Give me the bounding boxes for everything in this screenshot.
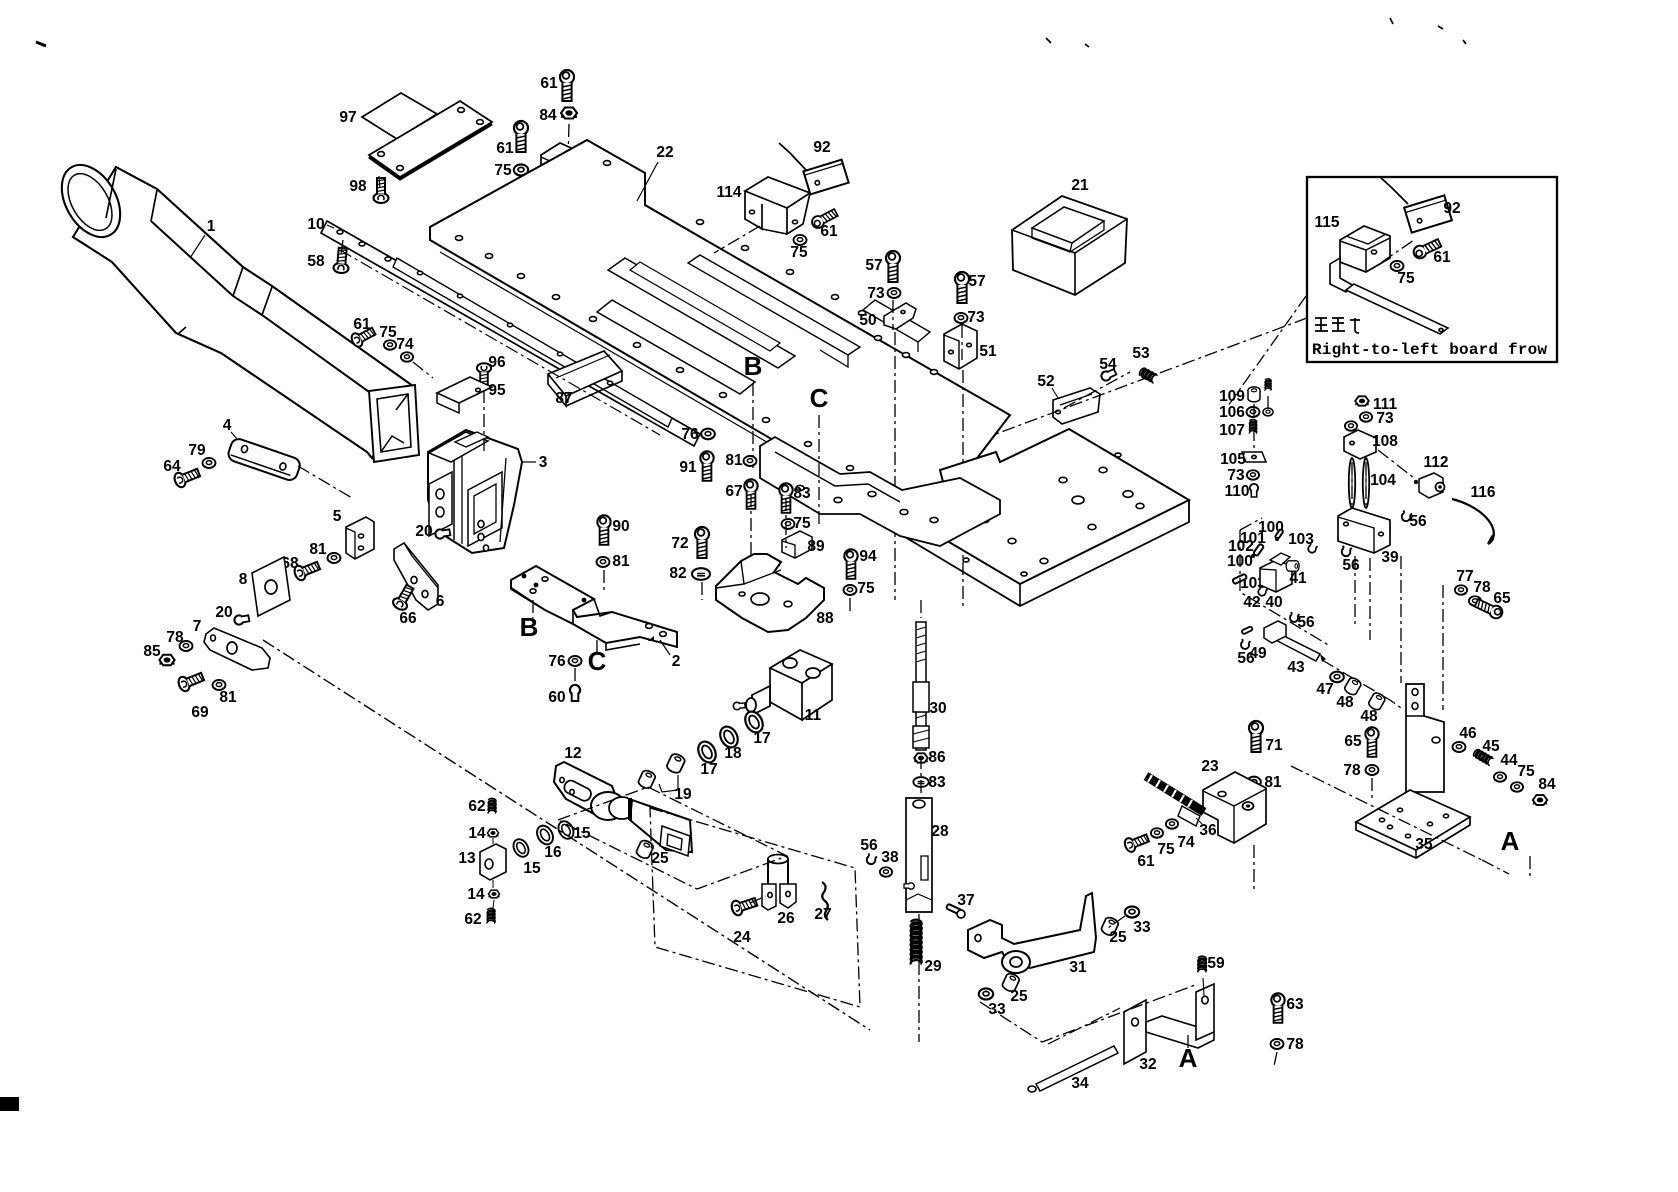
- washer 75 b2: [1151, 828, 1163, 838]
- label 27: [814, 906, 831, 923]
- dash 52-53: [1064, 372, 1130, 408]
- svg-text:17: 17: [753, 730, 770, 747]
- svg-text:41: 41: [1289, 570, 1307, 587]
- washer 75 m: [1511, 782, 1523, 792]
- svg-text:57: 57: [968, 273, 985, 290]
- svg-text:33: 33: [988, 1001, 1006, 1018]
- svg-text:92: 92: [1443, 200, 1460, 217]
- label 48a: [1336, 694, 1354, 711]
- letter B top: [744, 351, 763, 381]
- label 3: [522, 454, 548, 471]
- bushing 48b: [1367, 691, 1386, 711]
- part 13: [480, 838, 506, 880]
- label 5: [333, 508, 342, 525]
- label 61 b: [1137, 853, 1155, 870]
- svg-text:56: 56: [1237, 650, 1255, 667]
- svg-text:3: 3: [539, 454, 548, 471]
- label 75 duct: [379, 324, 397, 341]
- washer 106: [1247, 407, 1260, 417]
- svg-text:81: 81: [725, 452, 743, 469]
- label 41: [1289, 570, 1307, 587]
- letter C top: [810, 383, 829, 413]
- label 64: [163, 458, 181, 475]
- washer 83 b: [913, 777, 928, 787]
- svg-text:65: 65: [1344, 733, 1362, 750]
- svg-text:75: 75: [1157, 841, 1175, 858]
- label 108: [1372, 433, 1398, 450]
- ring 15 b: [555, 819, 576, 842]
- label 56 r1: [1409, 513, 1427, 530]
- label 86: [928, 749, 946, 766]
- label 61 near114: [820, 223, 838, 240]
- clip 56 r2: [1341, 546, 1352, 558]
- svg-text:75: 75: [494, 162, 512, 179]
- label 2: [660, 640, 680, 670]
- label 97: [339, 109, 356, 126]
- svg-text:78: 78: [1286, 1036, 1304, 1053]
- washer 82: [692, 568, 710, 580]
- svg-text:75: 75: [857, 580, 875, 597]
- svg-text:65: 65: [1493, 590, 1511, 607]
- part 5: [346, 517, 374, 559]
- part 8: [252, 557, 290, 616]
- screw 63: [1271, 993, 1284, 1022]
- svg-text:48: 48: [1360, 708, 1378, 725]
- ring 19 b: [665, 752, 686, 774]
- svg-text:35: 35: [1415, 836, 1433, 853]
- screw 61 near 114: [810, 207, 839, 230]
- svg-text:52: 52: [1037, 373, 1054, 390]
- label 32: [1139, 1056, 1156, 1073]
- svg-text:25: 25: [651, 850, 669, 867]
- label 10: [307, 216, 334, 233]
- svg-text:78: 78: [166, 629, 184, 646]
- label 96: [488, 354, 506, 371]
- label 63: [1286, 996, 1304, 1013]
- label 57 a: [865, 257, 882, 274]
- svg-text:67: 67: [725, 483, 742, 500]
- screw 58: [333, 247, 350, 273]
- label 46: [1459, 725, 1477, 742]
- label 11: [805, 707, 822, 724]
- svg-text:38: 38: [881, 849, 899, 866]
- svg-text:7: 7: [193, 618, 202, 635]
- label 29: [924, 958, 942, 975]
- svg-text:20: 20: [215, 604, 232, 621]
- label 71: [1265, 737, 1283, 754]
- label 6: [436, 593, 445, 610]
- bushing 25 b: [1001, 972, 1021, 993]
- dash 115-92: [1382, 240, 1414, 262]
- svg-text:2: 2: [672, 653, 681, 670]
- label 34: [1071, 1075, 1089, 1092]
- dash frame 26-29: [650, 808, 860, 1007]
- screw 69: [177, 670, 206, 693]
- label 9: [582, 159, 591, 176]
- label 45: [1482, 738, 1500, 755]
- screw 20 a: [435, 528, 451, 540]
- svg-text:59: 59: [1207, 955, 1225, 972]
- washer 44: [1494, 772, 1506, 782]
- ring 19 a: [637, 769, 657, 790]
- label 22: [637, 144, 674, 201]
- label 94: [859, 548, 877, 565]
- svg-text:75: 75: [1517, 763, 1535, 780]
- svg-text:90: 90: [612, 518, 629, 535]
- spring 53: [1138, 367, 1157, 383]
- spring 59: [1198, 956, 1206, 996]
- washer 78 d: [1271, 1039, 1284, 1049]
- label 78 d: [1286, 1036, 1304, 1053]
- washer 74 b: [1166, 819, 1178, 829]
- washer 81 r: [1247, 777, 1261, 788]
- svg-text:76: 76: [548, 653, 566, 670]
- spring 29: [911, 920, 922, 965]
- svg-text:81: 81: [612, 553, 630, 570]
- connector 92 inset: [1380, 177, 1452, 233]
- label 89: [807, 538, 825, 555]
- washer 74 duct: [401, 352, 413, 362]
- label 8: [239, 571, 248, 588]
- label 28: [931, 823, 949, 840]
- svg-text:75: 75: [379, 324, 397, 341]
- svg-text:58: 58: [307, 253, 325, 270]
- svg-text:61: 61: [820, 223, 838, 240]
- washer 73 a: [888, 288, 901, 298]
- label 14 a: [468, 825, 486, 842]
- label 77: [1456, 568, 1473, 585]
- loops 104: [1349, 458, 1369, 508]
- label 56 c: [860, 837, 878, 854]
- rod 43: [1268, 630, 1326, 662]
- svg-text:77: 77: [1456, 568, 1473, 585]
- dash 58-rail: [341, 240, 343, 254]
- svg-text:88: 88: [816, 610, 834, 627]
- spring 45: [1472, 748, 1493, 765]
- ring 17 a: [742, 709, 766, 736]
- arm 12: [554, 762, 692, 856]
- label 35: [1415, 836, 1433, 853]
- label 65 r: [1493, 590, 1511, 607]
- label 16: [544, 844, 562, 861]
- label 31: [1069, 959, 1087, 976]
- nut 14 a: [487, 829, 498, 837]
- dash 4: [298, 466, 352, 498]
- label 81 c: [612, 553, 630, 570]
- washer 79: [203, 458, 216, 468]
- bracket 115: [1330, 226, 1448, 334]
- label 92: [813, 139, 830, 156]
- label 74 duct: [396, 336, 414, 353]
- label 79: [188, 442, 206, 459]
- svg-text:29: 29: [924, 958, 942, 975]
- label 112: [1423, 454, 1448, 471]
- svg-text:6: 6: [436, 593, 445, 610]
- label 61 top: [540, 75, 558, 92]
- part 2 bar: [511, 566, 677, 650]
- screw 65 m: [1365, 727, 1378, 756]
- block 39: [1338, 508, 1390, 553]
- svg-text:30: 30: [929, 700, 946, 717]
- svg-text:20: 20: [415, 523, 432, 540]
- screw 65 r: [1474, 597, 1505, 620]
- svg-text:23: 23: [1201, 758, 1219, 775]
- svg-text:56: 56: [860, 837, 878, 854]
- label 61 duct: [353, 316, 371, 333]
- screw 61 (top): [560, 70, 574, 101]
- label 39: [1381, 549, 1399, 566]
- lever 31: [968, 893, 1096, 973]
- label 23: [1201, 758, 1219, 775]
- washer 78 m: [1366, 765, 1379, 775]
- svg-text:78: 78: [1473, 579, 1491, 596]
- part 27: [822, 882, 828, 920]
- svg-text:13: 13: [458, 850, 476, 867]
- washer 81 d: [744, 456, 757, 466]
- part 50 latch: [884, 303, 916, 329]
- inset caption text: [1312, 341, 1547, 359]
- spring 62 a: [488, 798, 496, 813]
- letter B2: [520, 612, 539, 642]
- dash 63: [1274, 1052, 1277, 1066]
- label 67: [725, 483, 742, 500]
- dash fasteners: [604, 494, 850, 614]
- svg-text:62: 62: [464, 911, 481, 928]
- bushing 25 c: [1100, 916, 1120, 937]
- label 33 b: [1133, 919, 1151, 936]
- svg-text:C: C: [810, 383, 829, 413]
- svg-text:50: 50: [859, 312, 876, 329]
- svg-text:61: 61: [353, 316, 371, 333]
- label 87: [555, 390, 572, 407]
- svg-text:108: 108: [1372, 433, 1398, 450]
- washer 38: [880, 867, 892, 877]
- washer 33 a: [979, 988, 993, 999]
- washer 75 duct: [384, 340, 396, 350]
- letter A bottom: [1179, 1035, 1198, 1073]
- label 61 mid: [496, 140, 514, 157]
- label 76 a: [681, 426, 699, 443]
- label 76 b: [548, 653, 566, 670]
- dash 77-78: [1401, 556, 1443, 710]
- clip 56 r1: [1400, 510, 1412, 522]
- label 83 b: [928, 774, 946, 791]
- label 111: [1373, 396, 1398, 413]
- spring 62 b: [487, 908, 495, 923]
- screw 91: [700, 451, 713, 480]
- washer 75 (mid): [514, 164, 528, 175]
- label 92 inset: [1443, 200, 1460, 217]
- label 115: [1314, 214, 1339, 231]
- label 66: [399, 610, 417, 627]
- dash 74: [413, 362, 433, 378]
- wire 116: [1452, 499, 1494, 544]
- label 68: [281, 555, 299, 572]
- label 73 b: [967, 309, 985, 326]
- clip 103 b: [1257, 586, 1268, 597]
- dash B top: [752, 383, 754, 468]
- label 75 m2: [1517, 763, 1535, 780]
- dash 24-26: [750, 896, 766, 903]
- svg-text:61: 61: [1137, 853, 1155, 870]
- label 14 b: [467, 886, 485, 903]
- label 52: [1037, 373, 1058, 398]
- label 60: [548, 689, 565, 706]
- connector 92: [779, 143, 849, 194]
- part 11 block: [733, 650, 832, 720]
- svg-text:A: A: [1501, 826, 1520, 856]
- svg-text:36: 36: [1199, 822, 1217, 839]
- dash 57a: [893, 300, 895, 600]
- part 88 plate: [716, 554, 824, 632]
- svg-text:75: 75: [1397, 270, 1415, 287]
- screw 83: [779, 483, 792, 512]
- label 25 b: [1010, 988, 1028, 1005]
- svg-text:91: 91: [679, 459, 697, 476]
- label 105: [1220, 451, 1246, 468]
- clip 56 l: [1240, 639, 1251, 650]
- washer 75 d: [844, 585, 857, 595]
- svg-text:78: 78: [1343, 762, 1361, 779]
- washer 77: [1455, 585, 1467, 595]
- screw 54: [1100, 368, 1117, 383]
- svg-text:96: 96: [488, 354, 506, 371]
- svg-text:56: 56: [1409, 513, 1427, 530]
- svg-text:40: 40: [1265, 594, 1282, 611]
- label 62 b: [464, 911, 481, 928]
- label 73 col: [1227, 467, 1245, 484]
- label 12: [564, 745, 581, 762]
- label 95: [488, 382, 506, 399]
- washer 81 a: [328, 553, 341, 563]
- spring 107: [1249, 419, 1256, 433]
- screw 24: [730, 895, 758, 917]
- ring 17 b: [695, 739, 719, 766]
- label 40: [1265, 594, 1282, 611]
- svg-text:16: 16: [544, 844, 562, 861]
- washer 75 near114: [794, 235, 807, 245]
- svg-text:46: 46: [1459, 725, 1477, 742]
- label 56 m: [1297, 614, 1315, 631]
- speck top-left: [36, 42, 46, 46]
- pin 37: [946, 904, 965, 918]
- washer 75 inset: [1391, 261, 1404, 271]
- screw 110: [1250, 484, 1258, 497]
- svg-text:4: 4: [223, 417, 232, 434]
- label 15 b: [573, 825, 591, 842]
- svg-text:44: 44: [1500, 752, 1518, 769]
- svg-text:73: 73: [1376, 410, 1394, 427]
- dash 30: [919, 600, 921, 1042]
- svg-text:115: 115: [1314, 214, 1339, 231]
- rail 10: [321, 221, 700, 446]
- dash under 84: [568, 124, 569, 160]
- svg-text:61: 61: [540, 75, 558, 92]
- svg-text:86: 86: [928, 749, 946, 766]
- label 15 a: [523, 860, 541, 877]
- svg-text:71: 71: [1265, 737, 1283, 754]
- label 75 d: [857, 580, 875, 597]
- svg-text:98: 98: [349, 178, 367, 195]
- label 62 a: [468, 798, 485, 815]
- label 91: [679, 459, 697, 476]
- svg-text:74: 74: [396, 336, 414, 353]
- rod 36 hatched: [1146, 775, 1204, 826]
- dash band: [340, 250, 660, 435]
- nut 84 b: [1533, 795, 1547, 805]
- label 36: [1196, 818, 1217, 839]
- dash 43-48: [1322, 660, 1404, 710]
- base plate: [900, 429, 1189, 606]
- svg-text:75: 75: [790, 244, 808, 261]
- screw 67: [744, 479, 757, 508]
- svg-text:B: B: [520, 612, 539, 642]
- svg-text:B: B: [744, 351, 763, 381]
- leader 13-14: [493, 880, 494, 908]
- clip 56 c: [865, 853, 877, 865]
- screw 71: [1249, 721, 1263, 752]
- mid rails: [760, 437, 1000, 546]
- label 84: [539, 107, 557, 124]
- ring 18: [717, 724, 741, 751]
- dash under 75: [520, 177, 522, 205]
- label 73 a: [867, 285, 885, 302]
- svg-text:79: 79: [188, 442, 206, 459]
- rod 30: [913, 622, 929, 750]
- bracket 51: [944, 324, 977, 369]
- nut 84: [561, 108, 577, 119]
- svg-text:37: 37: [957, 892, 974, 909]
- label 18: [724, 745, 742, 762]
- svg-text:15: 15: [523, 860, 541, 877]
- block 108: [1344, 430, 1376, 459]
- svg-text:87: 87: [555, 390, 572, 407]
- label 30: [929, 700, 946, 717]
- label 83: [793, 485, 811, 502]
- label 47: [1316, 681, 1333, 698]
- part 7: [204, 628, 270, 670]
- part 49: [1241, 621, 1286, 643]
- svg-text:92: 92: [813, 139, 830, 156]
- svg-text:11: 11: [805, 707, 822, 724]
- washer 75 c: [782, 519, 795, 529]
- svg-text:1: 1: [207, 218, 216, 235]
- svg-text:94: 94: [859, 548, 877, 565]
- svg-text:15: 15: [573, 825, 591, 842]
- svg-text:83: 83: [793, 485, 811, 502]
- dash B2: [533, 600, 597, 682]
- ring 16: [534, 823, 556, 847]
- dash under lever: [980, 984, 1198, 1042]
- svg-text:27: 27: [814, 906, 831, 923]
- svg-text:73: 73: [967, 309, 985, 326]
- dash 57b: [962, 325, 963, 610]
- label 44: [1500, 752, 1518, 769]
- svg-text:69: 69: [191, 704, 209, 721]
- screw 61 duct: [349, 325, 377, 349]
- main diagonal lower-left: [263, 640, 870, 1030]
- dash frame 40s: [1240, 518, 1330, 646]
- svg-text:107: 107: [1219, 422, 1245, 439]
- part 95: [437, 377, 492, 413]
- svg-text:81: 81: [219, 689, 237, 706]
- svg-text:33: 33: [1133, 919, 1151, 936]
- block 23: [1203, 772, 1266, 843]
- svg-text:112: 112: [1423, 454, 1448, 471]
- labels 100-103: [1227, 519, 1314, 592]
- part 3 block: [428, 430, 522, 553]
- label 4: [223, 417, 238, 440]
